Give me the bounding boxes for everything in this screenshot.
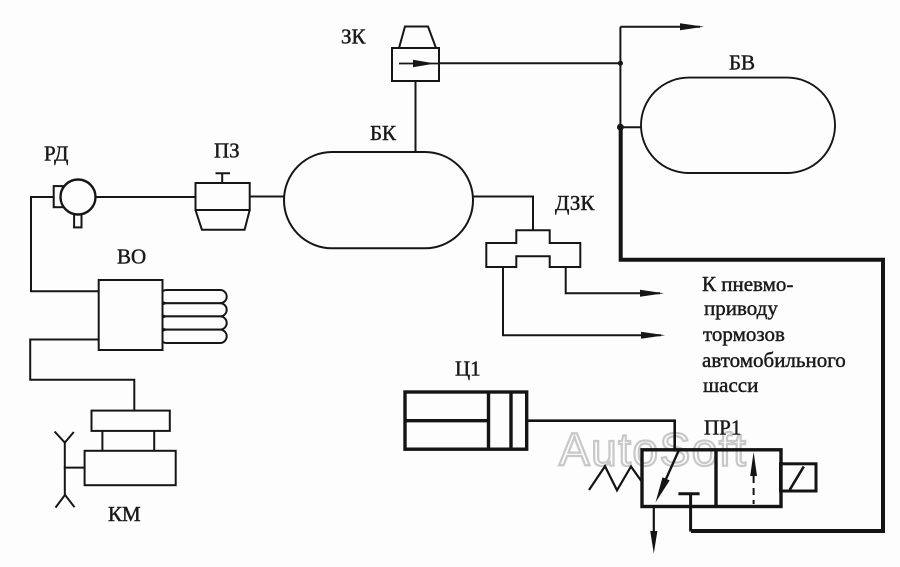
svg-text:тормозов: тормозов	[703, 322, 785, 346]
svg-text:ДЗК: ДЗК	[555, 191, 595, 215]
svg-text:Ц1: Ц1	[455, 357, 481, 381]
svg-text:РД: РД	[44, 142, 68, 166]
svg-text:ПЗ: ПЗ	[214, 139, 240, 163]
svg-text:КМ: КМ	[108, 502, 141, 526]
svg-text:ПР1: ПР1	[704, 416, 741, 440]
svg-text:БВ: БВ	[729, 51, 755, 75]
svg-text:К пневмо-: К пневмо-	[702, 272, 793, 296]
svg-text:ВО: ВО	[117, 245, 146, 269]
svg-text:БК: БК	[370, 121, 397, 145]
svg-text:ЗК: ЗК	[341, 25, 367, 49]
svg-text:автомобильного: автомобильного	[702, 348, 846, 372]
svg-text:шасси: шасси	[703, 373, 758, 397]
svg-text:приводу: приводу	[704, 296, 778, 320]
